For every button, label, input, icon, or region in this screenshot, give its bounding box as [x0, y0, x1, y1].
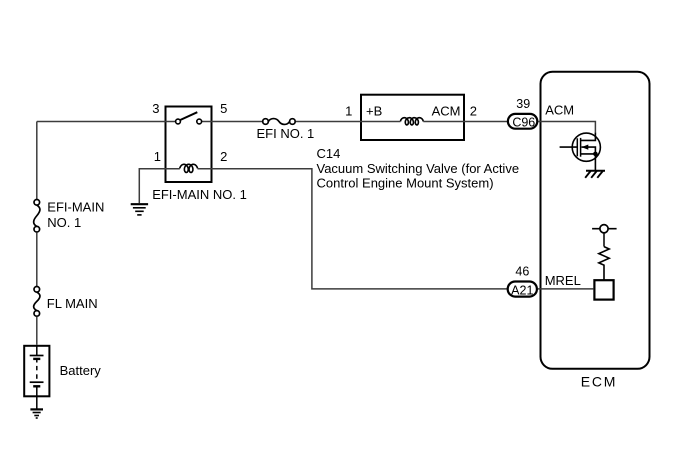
relay EFI-MAIN NO. 1 box — [166, 107, 212, 183]
valve solenoid coil — [400, 118, 423, 125]
label ACM (ECM pin) — [545, 102, 574, 117]
ECM box — [541, 72, 650, 369]
wire: pin 2 of valve... relay coil feed to A21 — [213, 169, 508, 289]
battery — [24, 346, 49, 397]
label EFI-MAIN NO. 1 (left fuse) — [47, 199, 104, 230]
wire: relay pin 1 to ground — [139, 169, 164, 203]
svg-text:2: 2 — [220, 149, 227, 164]
wire: relay coil leads — [165, 168, 213, 170]
label Battery — [60, 363, 102, 378]
svg-text:FL MAIN: FL MAIN — [47, 296, 98, 311]
relay switch contact circles and arm — [176, 112, 202, 124]
svg-text:Vacuum Switching Valve (for Ac: Vacuum Switching Valve (for Active — [317, 161, 520, 176]
label EFI-MAIN NO. 1 (relay) — [152, 187, 247, 202]
wire: valve to connector C96 — [465, 121, 507, 123]
relay pin 3 label — [152, 101, 159, 116]
fuse FL MAIN — [34, 287, 40, 317]
valve +B label — [366, 103, 382, 118]
wire: left rail top horizontal to relay pin 3 — [37, 121, 165, 123]
svg-text:1: 1 — [154, 149, 161, 164]
wire: battery to ground — [36, 396, 38, 409]
ground (transistor source, chassis) — [585, 171, 605, 178]
pin 39 label — [516, 97, 530, 111]
svg-text:C96: C96 — [512, 115, 535, 129]
svg-text:1: 1 — [345, 103, 352, 118]
relay pin 1 label — [154, 149, 161, 164]
wire: left rail from FL MAIN to battery — [36, 317, 38, 345]
svg-text:EFI-MAIN: EFI-MAIN — [47, 199, 104, 214]
wire: fuse to valve box — [296, 121, 360, 123]
svg-text:2: 2 — [470, 103, 477, 118]
B+ supply symbol in ECM — [592, 225, 617, 247]
ground (below battery) — [30, 409, 43, 418]
connector A21 oval — [508, 282, 537, 298]
valve pin 1 label — [345, 103, 352, 118]
relay pin 5 label — [220, 101, 227, 116]
pin 46 label — [515, 265, 529, 279]
svg-text:MREL: MREL — [545, 273, 581, 288]
driver block (square in ECM) — [594, 280, 613, 299]
valve ACM label — [432, 103, 461, 118]
fuse EFI NO. 1 — [263, 119, 296, 125]
svg-text:46: 46 — [515, 265, 529, 279]
relay coil — [180, 164, 198, 172]
svg-text:NO. 1: NO. 1 — [47, 215, 81, 230]
connector C96 oval — [508, 114, 537, 129]
valve pin 2 label — [470, 103, 477, 118]
svg-text:Control Engine Mount System): Control Engine Mount System) — [317, 176, 494, 191]
wire: relay pin 5 to fuse EFI NO. 1 — [213, 121, 266, 123]
label MREL — [545, 273, 581, 288]
wire: switch contacts through relay — [165, 121, 213, 123]
svg-text:Battery: Battery — [60, 363, 102, 378]
fuse EFI-MAIN NO. 1 — [34, 200, 40, 233]
label EFI NO. 1 — [257, 126, 315, 141]
svg-text:+B: +B — [366, 103, 382, 118]
label FL MAIN — [47, 296, 98, 311]
svg-text:C14: C14 — [317, 146, 341, 161]
wire: left rail vertical down to fuse EFI-MAIN NO. 1 — [36, 122, 38, 203]
label C14 Vacuum Switching Valve — [317, 146, 520, 191]
svg-text:ECM: ECM — [581, 374, 618, 390]
wire: valve internal leads — [360, 121, 465, 123]
transistor Q (MOSFET in ECM) — [560, 133, 601, 171]
svg-text:ACM: ACM — [432, 103, 461, 118]
relay pin 2 label — [220, 149, 227, 164]
wire: C96 into ECM to transistor drain — [538, 122, 595, 134]
svg-text:5: 5 — [220, 101, 227, 116]
svg-text:A21: A21 — [511, 284, 533, 298]
ground (relay coil) — [131, 204, 148, 215]
label ECM — [581, 374, 618, 390]
svg-text:39: 39 — [516, 97, 530, 111]
svg-text:ACM: ACM — [545, 102, 574, 117]
svg-text:EFI NO. 1: EFI NO. 1 — [257, 126, 315, 141]
wire: A21 into ECM to driver block — [538, 288, 593, 290]
svg-text:3: 3 — [152, 101, 159, 116]
valve C14 box — [361, 95, 464, 140]
wire: left rail between fuses — [36, 233, 38, 290]
resistor (ECM pull-up) — [599, 247, 609, 281]
svg-text:EFI-MAIN NO. 1: EFI-MAIN NO. 1 — [152, 187, 247, 202]
